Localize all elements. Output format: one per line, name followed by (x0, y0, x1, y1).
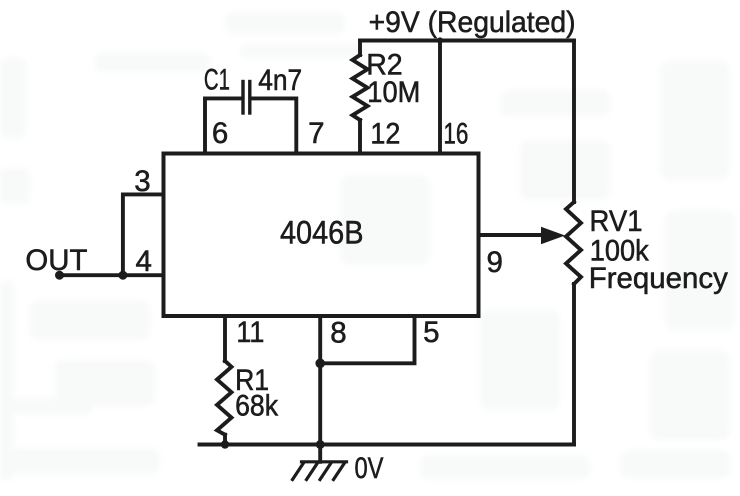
svg-text:0V: 0V (355, 452, 384, 485)
ground symbol hatch 4 (334, 463, 345, 480)
svg-text:16: 16 (443, 118, 468, 151)
svg-text:8: 8 (330, 317, 346, 350)
resistor R2 (353, 55, 368, 120)
junction node pin8/0V rail (316, 440, 325, 449)
ground symbol hatch 1 (293, 463, 304, 480)
svg-text:3: 3 (134, 165, 150, 198)
svg-text:9: 9 (487, 246, 503, 279)
junction node pin3/pin4 (118, 271, 127, 280)
junction node +9V/pin16 (437, 37, 443, 43)
ground symbol bar (302, 460, 347, 463)
svg-text:5: 5 (423, 316, 439, 349)
svg-text:68k: 68k (235, 390, 278, 423)
wire pin 8 lead (318, 317, 322, 445)
capacitor C1 left plate (241, 82, 244, 114)
wire pin 11 lead (223, 317, 227, 362)
capacitor C1 left lead (205, 98, 242, 153)
ground symbol hatch 3 (320, 463, 331, 480)
wire R2 top lead (358, 41, 362, 56)
junction node pin5/pin8 (315, 359, 325, 369)
IC U1 4046B body (164, 154, 479, 317)
junction node R1/0V rail (221, 440, 229, 448)
wire R1 bottom lead (223, 435, 227, 445)
wire pin 9 to wiper (479, 233, 544, 237)
wire pin 3 (123, 194, 163, 275)
node OUT terminal dot (55, 271, 64, 280)
svg-text:7: 7 (308, 117, 324, 150)
wire 0V ground rail (200, 443, 575, 447)
wire pin 16 lead (438, 41, 442, 154)
resistor R1 (217, 361, 232, 435)
svg-text:11: 11 (236, 316, 264, 349)
svg-text:10M: 10M (367, 76, 420, 109)
svg-text:+9V (Regulated): +9V (Regulated) (369, 6, 576, 39)
potentiometer RV1 zigzag (566, 202, 581, 284)
svg-text:Frequency: Frequency (589, 262, 728, 295)
svg-text:OUT: OUT (25, 244, 87, 277)
capacitor C1 right plate (248, 82, 251, 114)
wire +9V rail to RV1 top (572, 41, 576, 203)
wire +9V rail (360, 39, 574, 43)
svg-text:C1: C1 (204, 64, 230, 97)
ground symbol hatch 2 (307, 463, 318, 480)
capacitor C1 right lead (251, 98, 296, 153)
wire RV1 bottom lead (572, 284, 576, 445)
svg-text:RV1: RV1 (590, 205, 643, 238)
wire pin 12 lead (358, 120, 362, 153)
wiper arrowhead of RV1 (541, 227, 565, 244)
wire pin 5 lead (320, 317, 414, 364)
svg-text:4: 4 (136, 245, 152, 278)
svg-text:6: 6 (212, 117, 228, 150)
svg-text:12: 12 (370, 118, 400, 151)
wire pin 4 / OUT (60, 273, 164, 277)
ground symbol stub (318, 445, 322, 462)
svg-text:4n7: 4n7 (258, 64, 302, 97)
svg-text:4046B: 4046B (280, 214, 364, 250)
